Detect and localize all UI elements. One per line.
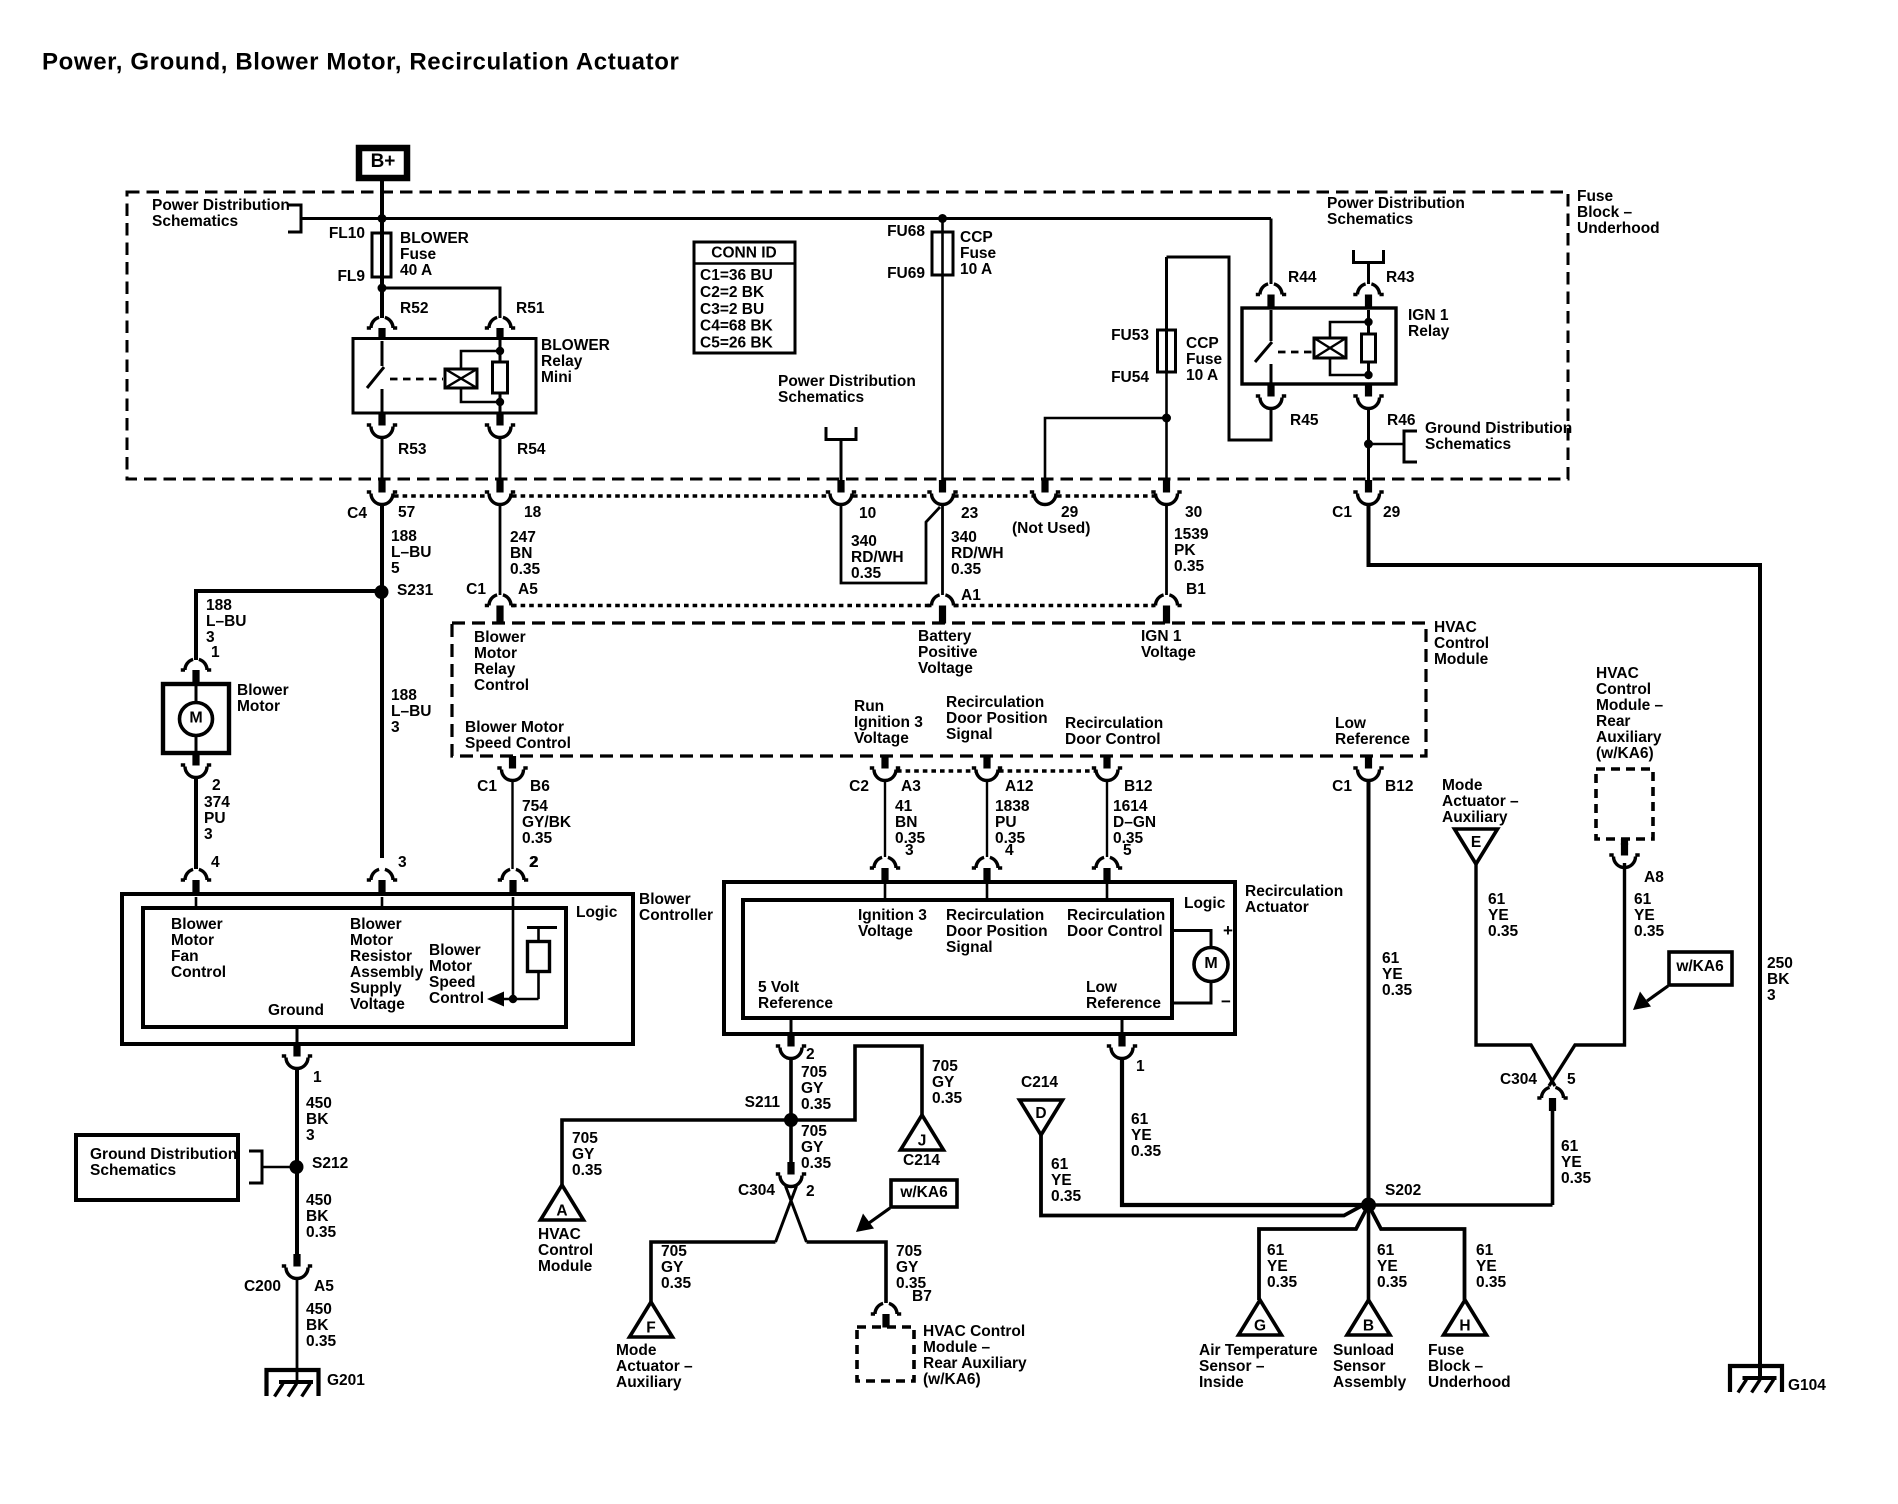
wire R53 to C4 (381, 437, 384, 481)
svg-text:61: 61 (1561, 1138, 1579, 1155)
svg-text:61: 61 (1377, 1242, 1395, 1259)
recirc motor M (1172, 931, 1211, 949)
svg-text:HVAC: HVAC (1434, 619, 1477, 636)
svg-text:10 A: 10 A (1186, 367, 1218, 384)
relay switch contact (381, 341, 384, 366)
svg-text:S211: S211 (745, 1094, 781, 1111)
IGN1 coil loop wires (1330, 322, 1369, 375)
svg-text:0.35: 0.35 (801, 1155, 832, 1172)
svg-text:C304: C304 (738, 1182, 775, 1199)
svg-text:Fuse: Fuse (960, 245, 997, 262)
svg-text:G: G (1254, 1318, 1266, 1335)
ground G201 (267, 1370, 319, 1396)
connector 18 (496, 480, 503, 493)
svg-text:188: 188 (391, 528, 417, 545)
svg-text:23: 23 (961, 505, 979, 522)
svg-text:B1: B1 (1186, 581, 1206, 598)
svg-text:4: 4 (1005, 842, 1014, 859)
svg-text:3: 3 (1767, 987, 1776, 1004)
svg-text:B: B (1363, 1318, 1374, 1335)
svg-text:BK: BK (306, 1208, 329, 1225)
wire 1539 PK 0.35 (1165, 504, 1168, 595)
svg-text:Blower: Blower (639, 891, 691, 908)
wire 1838 PU 0.35 (986, 780, 988, 857)
CONN ID table (694, 242, 795, 353)
svg-text:GY: GY (572, 1146, 595, 1163)
svg-text:5: 5 (391, 560, 400, 577)
svg-text:YE: YE (1267, 1258, 1288, 1275)
connector blower motor pin 1 (181, 659, 211, 670)
wire 250 BK to G104 (1369, 504, 1761, 1379)
wire branch to R51 (382, 288, 500, 318)
svg-text:0.35: 0.35 (1488, 923, 1519, 940)
connector blower controller pin 1 ground (296, 1027, 299, 1044)
svg-text:Relay: Relay (541, 353, 583, 370)
junction fuse output (378, 284, 387, 293)
junction B+ / FU68 (938, 214, 947, 223)
svg-text:BN: BN (895, 814, 917, 831)
svg-text:A8: A8 (1644, 869, 1664, 886)
connector blower controller pin 3 (367, 869, 397, 880)
svg-text:Module –: Module – (1596, 697, 1664, 714)
svg-text:Block –: Block – (1428, 1358, 1484, 1375)
svg-text:Door Control: Door Control (1067, 923, 1163, 940)
svg-text:YE: YE (1476, 1258, 1497, 1275)
triangle H (1444, 1300, 1487, 1335)
svg-text:705: 705 (932, 1058, 958, 1075)
svg-text:FU69: FU69 (887, 265, 925, 282)
svg-text:L–BU: L–BU (391, 703, 431, 720)
triangle D C214 (1020, 1100, 1063, 1135)
svg-text:Recirculation: Recirculation (946, 694, 1044, 711)
svg-text:0.35: 0.35 (1634, 923, 1665, 940)
svg-text:S212: S212 (312, 1155, 348, 1172)
svg-text:18: 18 (524, 504, 542, 521)
wires into recirc (884, 884, 887, 900)
svg-text:C2=2 BK: C2=2 BK (700, 284, 765, 301)
wire S202 to H triangle (1369, 1205, 1465, 1300)
wire FL9 to relay (380, 277, 384, 318)
svg-text:C1: C1 (466, 581, 486, 598)
svg-text:Fuse: Fuse (1577, 188, 1614, 205)
wire pin2 to speed control (512, 897, 515, 999)
svg-text:C1: C1 (1332, 778, 1352, 795)
svg-text:w/KA6: w/KA6 (899, 1184, 948, 1201)
svg-text:Reference: Reference (758, 995, 833, 1012)
svg-text:A12: A12 (1005, 778, 1033, 795)
svg-text:YE: YE (1488, 907, 1509, 924)
svg-text:0.35: 0.35 (1377, 1274, 1408, 1291)
wire 61 YE C304-5 to S202 (1551, 1111, 1555, 1205)
svg-text:Reference: Reference (1335, 731, 1410, 748)
svg-text:61: 61 (1051, 1156, 1069, 1173)
svg-text:Control: Control (429, 990, 484, 1007)
svg-text:705: 705 (896, 1243, 922, 1260)
svg-text:0.35: 0.35 (661, 1275, 692, 1292)
svg-text:Fan: Fan (171, 948, 199, 965)
HVAC control module rear auxiliary dashed box bottom (857, 1327, 914, 1381)
svg-text:2: 2 (529, 854, 538, 871)
svg-text:29: 29 (1061, 504, 1079, 521)
svg-text:YE: YE (1051, 1172, 1072, 1189)
svg-text:5: 5 (1567, 1071, 1576, 1088)
svg-text:Motor: Motor (474, 645, 517, 662)
triangle E mode actuator auxiliary (1455, 829, 1498, 864)
svg-text:Ground Distribution: Ground Distribution (90, 1146, 237, 1163)
IGN1 resistor (1367, 310, 1370, 334)
svg-text:61: 61 (1634, 891, 1652, 908)
svg-text:C304: C304 (1500, 1071, 1537, 1088)
svg-text:PU: PU (204, 810, 226, 827)
svg-text:R53: R53 (398, 441, 427, 458)
relay coil loop wires (461, 351, 500, 402)
svg-text:Motor: Motor (237, 698, 280, 715)
page feed symbol R43 (1354, 250, 1384, 263)
svg-text:C1: C1 (1332, 504, 1352, 521)
svg-text:CCP: CCP (1186, 335, 1219, 352)
svg-text:705: 705 (801, 1123, 827, 1140)
svg-text:YE: YE (1377, 1258, 1398, 1275)
svg-text:R52: R52 (400, 300, 428, 317)
ground distribution schematics box (76, 1135, 238, 1200)
connector recirc pin 4 (972, 857, 1002, 868)
connector B7 (871, 1303, 901, 1314)
svg-text:R45: R45 (1290, 412, 1319, 429)
svg-text:0.35: 0.35 (522, 830, 553, 847)
svg-text:0.35: 0.35 (1174, 558, 1205, 575)
connector 29 not used (1041, 480, 1048, 493)
svg-text:Blower: Blower (474, 629, 526, 646)
wire FU54 down (1165, 372, 1168, 481)
connector B1 (1151, 595, 1181, 606)
wire S202 to C304-5 (1369, 1203, 1553, 1207)
svg-text:0.35: 0.35 (306, 1333, 337, 1350)
svg-text:R44: R44 (1288, 269, 1317, 286)
svg-text:FU54: FU54 (1111, 369, 1149, 386)
connector recirc pin 2 (790, 1018, 793, 1034)
svg-text:0.35: 0.35 (1476, 1274, 1507, 1291)
svg-text:374: 374 (204, 794, 230, 811)
svg-text:BK: BK (306, 1111, 329, 1128)
junction B+ / FL10 (378, 214, 387, 223)
svg-text:Assembly: Assembly (1333, 1374, 1407, 1391)
connector R45 (1267, 384, 1274, 397)
svg-text:Blower: Blower (350, 916, 402, 933)
triangle B (1347, 1300, 1390, 1335)
wire 374 PU 3 (194, 777, 198, 869)
wire 705 GY 0.35 pin2 (789, 1058, 793, 1162)
wire 61 YE from E (1476, 864, 1555, 1086)
svg-text:10: 10 (859, 505, 876, 522)
w/KA6 flag box right (1669, 952, 1732, 985)
svg-text:Sensor: Sensor (1333, 1358, 1386, 1375)
svg-text:Sunload: Sunload (1333, 1342, 1394, 1359)
svg-text:0.35: 0.35 (851, 565, 882, 582)
svg-text:J: J (918, 1133, 927, 1150)
svg-text:340: 340 (851, 533, 877, 550)
svg-text:Mode: Mode (616, 1342, 657, 1359)
IGN1 coil (1314, 338, 1346, 358)
svg-text:30: 30 (1185, 504, 1202, 521)
svg-text:A3: A3 (901, 778, 921, 795)
relay switch blade (367, 367, 384, 388)
HVAC control module rear auxiliary dashed box top (1596, 769, 1653, 839)
wire 41 BN 0.35 (884, 780, 886, 857)
wire 61 YE from D (1041, 1135, 1366, 1216)
wire S231 to blower motor (196, 591, 382, 660)
relay actuation dashed link (390, 378, 443, 381)
connector recirc pin 5 (1092, 857, 1122, 868)
svg-text:B7: B7 (912, 1288, 932, 1305)
svg-text:A5: A5 (314, 1278, 334, 1295)
svg-text:C214: C214 (1021, 1074, 1058, 1091)
connector R44 (1256, 284, 1286, 295)
svg-text:3: 3 (905, 842, 914, 859)
connector recirc pin 3 (870, 857, 900, 868)
svg-text:Actuator –: Actuator – (1442, 793, 1519, 810)
svg-text:61: 61 (1267, 1242, 1285, 1259)
svg-text:C2: C2 (849, 778, 869, 795)
wire S211 loop to J C214 (791, 1046, 922, 1120)
C304 crossover X (776, 1186, 797, 1242)
svg-text:Fuse: Fuse (400, 246, 437, 263)
svg-text:3: 3 (306, 1127, 315, 1144)
connector C200 terminal A5 (293, 1254, 300, 1267)
page bracket to S212 (249, 1151, 262, 1183)
svg-text:29: 29 (1383, 504, 1401, 521)
svg-text:Schematics: Schematics (1327, 211, 1413, 228)
svg-text:Auxiliary: Auxiliary (1596, 729, 1662, 746)
svg-text:B6: B6 (530, 778, 550, 795)
svg-text:G201: G201 (327, 1372, 365, 1389)
svg-text:Voltage: Voltage (854, 730, 909, 747)
wire 705 GY to mode actuator F (651, 1242, 776, 1302)
connector C1 terminal 29 (1365, 480, 1372, 493)
svg-text:HVAC: HVAC (538, 1226, 581, 1243)
ground G104 (1730, 1366, 1782, 1392)
svg-text:(w/KA6): (w/KA6) (1596, 745, 1654, 762)
svg-text:RD/WH: RD/WH (951, 545, 1004, 562)
svg-text:450: 450 (306, 1192, 332, 1209)
svg-text:1: 1 (211, 644, 220, 661)
wire S202 to B triangle (1367, 1205, 1371, 1300)
svg-text:Recirculation: Recirculation (1245, 883, 1343, 900)
connector blower controller pin 4 (181, 869, 211, 880)
svg-text:61: 61 (1476, 1242, 1494, 1259)
svg-text:2: 2 (212, 777, 221, 794)
svg-text:BK: BK (306, 1317, 329, 1334)
svg-text:1539: 1539 (1174, 526, 1209, 543)
wire 754 GY/BK 0.35 (511, 780, 513, 869)
svg-text:B+: B+ (371, 151, 396, 172)
svg-text:Voltage: Voltage (918, 660, 973, 677)
svg-text:1614: 1614 (1113, 798, 1148, 815)
svg-text:0.35: 0.35 (932, 1090, 963, 1107)
relay K - blower relay mini box (353, 339, 536, 414)
svg-text:Mode: Mode (1442, 777, 1483, 794)
svg-text:Motor: Motor (350, 932, 393, 949)
svg-text:IGN 1: IGN 1 (1408, 307, 1449, 324)
svg-text:w/KA6: w/KA6 (1675, 958, 1724, 975)
B+ terminal B+ (359, 148, 407, 178)
fuse FU53/FU54 CCP 10A (1165, 257, 1168, 372)
wire S211 to HVAC A triangle (562, 1120, 791, 1185)
svg-text:Battery: Battery (918, 628, 972, 645)
svg-text:61: 61 (1488, 891, 1506, 908)
svg-text:705: 705 (661, 1243, 687, 1260)
w/KA6 arrow right (1647, 986, 1668, 1001)
svg-text:1: 1 (313, 1069, 322, 1086)
svg-text:C214: C214 (903, 1152, 940, 1169)
svg-text:0.35: 0.35 (1382, 982, 1413, 999)
svg-text:61: 61 (1131, 1111, 1149, 1128)
svg-text:Recirculation: Recirculation (1067, 907, 1165, 924)
svg-text:1: 1 (1136, 1058, 1145, 1075)
dotted row HVAC A3-B12 (897, 769, 976, 772)
wire FU69 down to 23 (941, 275, 944, 481)
wire R46 down to C1 29 (1367, 408, 1370, 481)
svg-text:Power Distribution: Power Distribution (778, 373, 916, 390)
svg-text:HVAC Control: HVAC Control (923, 1323, 1025, 1340)
connector C304 terminal 5 (1537, 1087, 1567, 1098)
svg-text:B12: B12 (1385, 778, 1413, 795)
w/KA6 arrow (869, 1208, 890, 1223)
svg-text:R51: R51 (516, 300, 545, 317)
wire 1614 D-GN 0.35 (1106, 780, 1108, 857)
svg-text:HVAC: HVAC (1596, 665, 1639, 682)
wire R54 to 18 (499, 437, 502, 481)
svg-text:Relay: Relay (1408, 323, 1450, 340)
IGN1 dashed link (1278, 351, 1312, 354)
svg-text:Module –: Module – (923, 1339, 991, 1356)
svg-text:Signal: Signal (946, 726, 993, 743)
svg-text:5: 5 (1123, 842, 1132, 859)
connector R53 (378, 413, 385, 426)
svg-text:CONN ID: CONN ID (711, 245, 776, 262)
svg-text:G104: G104 (1788, 1377, 1826, 1394)
svg-text:Signal: Signal (946, 939, 993, 956)
svg-text:40 A: 40 A (400, 262, 432, 279)
connector B12 (1103, 756, 1110, 769)
connector 10 (837, 480, 844, 493)
svg-text:Recirculation: Recirculation (946, 907, 1044, 924)
svg-text:S231: S231 (397, 582, 434, 599)
svg-text:BLOWER: BLOWER (400, 230, 469, 247)
svg-text:Assembly: Assembly (350, 964, 424, 981)
triangle G (1239, 1300, 1282, 1335)
svg-text:YE: YE (1634, 907, 1655, 924)
wire branch to 29 (1045, 418, 1167, 481)
svg-text:C4: C4 (347, 505, 367, 522)
svg-text:IGN 1: IGN 1 (1141, 628, 1182, 645)
svg-text:B12: B12 (1124, 778, 1152, 795)
svg-text:F: F (646, 1320, 655, 1337)
IGN1 switch blade (1255, 342, 1272, 362)
svg-text:Schematics: Schematics (90, 1162, 176, 1179)
connector recirc pin 1 (1121, 1018, 1124, 1034)
svg-text:Underhood: Underhood (1577, 220, 1660, 237)
svg-text:FU53: FU53 (1111, 327, 1149, 344)
IGN1 switch contact (1270, 310, 1273, 341)
svg-text:R46: R46 (1387, 412, 1416, 429)
svg-text:Voltage: Voltage (858, 923, 913, 940)
svg-text:Motor: Motor (171, 932, 214, 949)
svg-text:R43: R43 (1386, 269, 1415, 286)
blower controller outer box (122, 894, 633, 1044)
connector C4 terminal 57 (378, 480, 385, 493)
svg-text:Positive: Positive (918, 644, 978, 661)
svg-text:Schematics: Schematics (1425, 436, 1511, 453)
connector R52 (367, 317, 397, 328)
svg-text:188: 188 (391, 687, 417, 704)
svg-text:S202: S202 (1385, 1182, 1421, 1199)
page bracket left (288, 205, 301, 232)
svg-text:Supply: Supply (350, 980, 402, 997)
svg-text:C3=2 BU: C3=2 BU (700, 301, 764, 318)
svg-text:GY: GY (661, 1259, 684, 1276)
wire 188 L-BU 5 (380, 504, 384, 858)
svg-text:2: 2 (806, 1183, 815, 1200)
svg-text:BK: BK (1767, 971, 1790, 988)
svg-text:Ground Distribution: Ground Distribution (1425, 420, 1572, 437)
svg-text:−: − (1221, 992, 1231, 1011)
connector C1 terminal A5 (485, 595, 515, 606)
connector blower motor pin 2 (192, 753, 199, 766)
svg-text:0.35: 0.35 (951, 561, 982, 578)
page feed symbol mid (826, 427, 856, 440)
HVAC control module dashed box (452, 623, 1426, 756)
svg-text:450: 450 (306, 1301, 332, 1318)
svg-text:Ignition 3: Ignition 3 (858, 907, 927, 924)
svg-text:GY: GY (896, 1259, 919, 1276)
svg-text:1838: 1838 (995, 798, 1030, 815)
svg-text:Blower: Blower (237, 682, 289, 699)
svg-text:C1=36 BU: C1=36 BU (700, 267, 773, 284)
svg-text:C4=68 BK: C4=68 BK (700, 318, 774, 335)
svg-text:Power Distribution: Power Distribution (152, 197, 290, 214)
svg-text:57: 57 (398, 504, 415, 521)
connector 23 (939, 480, 946, 493)
svg-text:0.35: 0.35 (572, 1162, 603, 1179)
connector C1 terminal B12 low reference (1365, 756, 1372, 769)
svg-text:754: 754 (522, 798, 548, 815)
svg-text:0.35: 0.35 (1051, 1188, 1082, 1205)
svg-text:E: E (1471, 834, 1481, 851)
svg-text:CCP: CCP (960, 229, 993, 246)
connector C2 terminal A3 (881, 756, 888, 769)
svg-text:C5=26 BK: C5=26 BK (700, 334, 774, 351)
triangle A HVAC control module (541, 1185, 584, 1220)
wires into controller (195, 897, 198, 908)
splice S212 (290, 1160, 304, 1174)
wire B+ to junction (380, 179, 384, 233)
connector C304 terminal 2 (787, 1162, 794, 1175)
relay resistor (499, 339, 502, 362)
wire 450 BK 3 (295, 1068, 299, 1254)
svg-text:Rear: Rear (1596, 713, 1630, 730)
svg-text:Control: Control (1596, 681, 1651, 698)
svg-text:Power, Ground, Blower Motor, R: Power, Ground, Blower Motor, Recirculati… (42, 48, 679, 75)
svg-text:Door Position: Door Position (946, 923, 1048, 940)
svg-text:GY: GY (801, 1139, 824, 1156)
wire feed to R44 (1270, 219, 1273, 285)
svg-text:Blower: Blower (171, 916, 223, 933)
svg-text:RD/WH: RD/WH (851, 549, 904, 566)
recirculation actuator outer box (724, 882, 1235, 1034)
svg-text:340: 340 (951, 529, 977, 546)
svg-text:Module: Module (538, 1258, 593, 1275)
svg-text:L–BU: L–BU (206, 613, 246, 630)
